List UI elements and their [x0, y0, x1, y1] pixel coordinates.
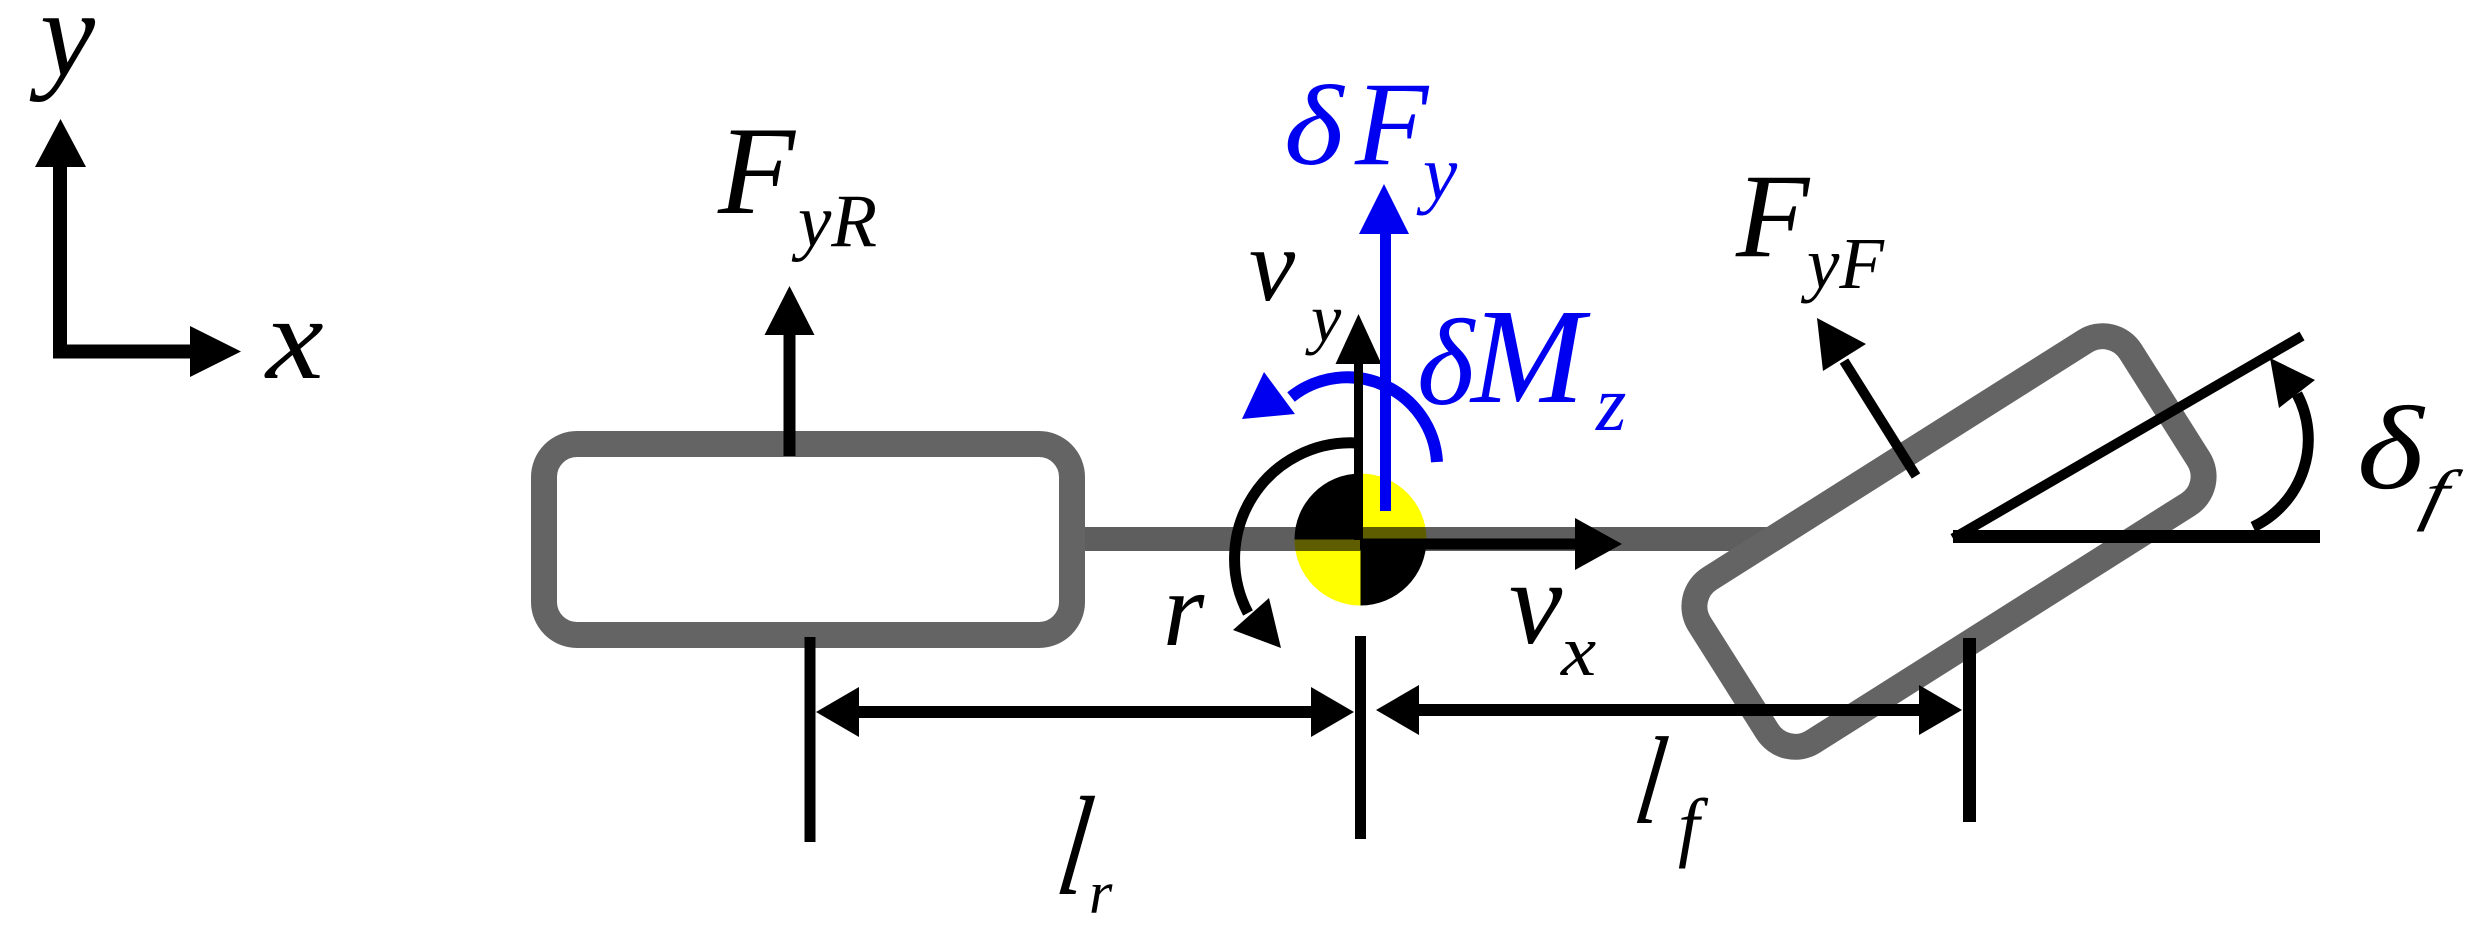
svg-text:yF: yF [1800, 223, 1885, 304]
svg-text:F: F [1735, 149, 1811, 282]
svg-text:y: y [29, 0, 96, 102]
svg-text:z: z [1595, 360, 1626, 447]
svg-text:δ: δ [2357, 383, 2425, 514]
svg-text:r: r [1089, 860, 1113, 926]
svg-text:y: y [1305, 280, 1342, 356]
svg-text:y: y [1416, 130, 1458, 216]
svg-text:M: M [1469, 282, 1591, 432]
svg-text:x: x [264, 272, 324, 403]
svg-text:x: x [1560, 612, 1597, 691]
svg-text:v: v [1509, 536, 1563, 669]
svg-text:r: r [1163, 551, 1205, 668]
svg-text:δ: δ [1284, 63, 1345, 189]
svg-text:v: v [1249, 208, 1296, 323]
svg-text:yR: yR [791, 180, 877, 263]
svg-text:F: F [717, 102, 797, 241]
svg-text:δ: δ [1417, 294, 1476, 431]
svg-text:F: F [1354, 57, 1430, 190]
